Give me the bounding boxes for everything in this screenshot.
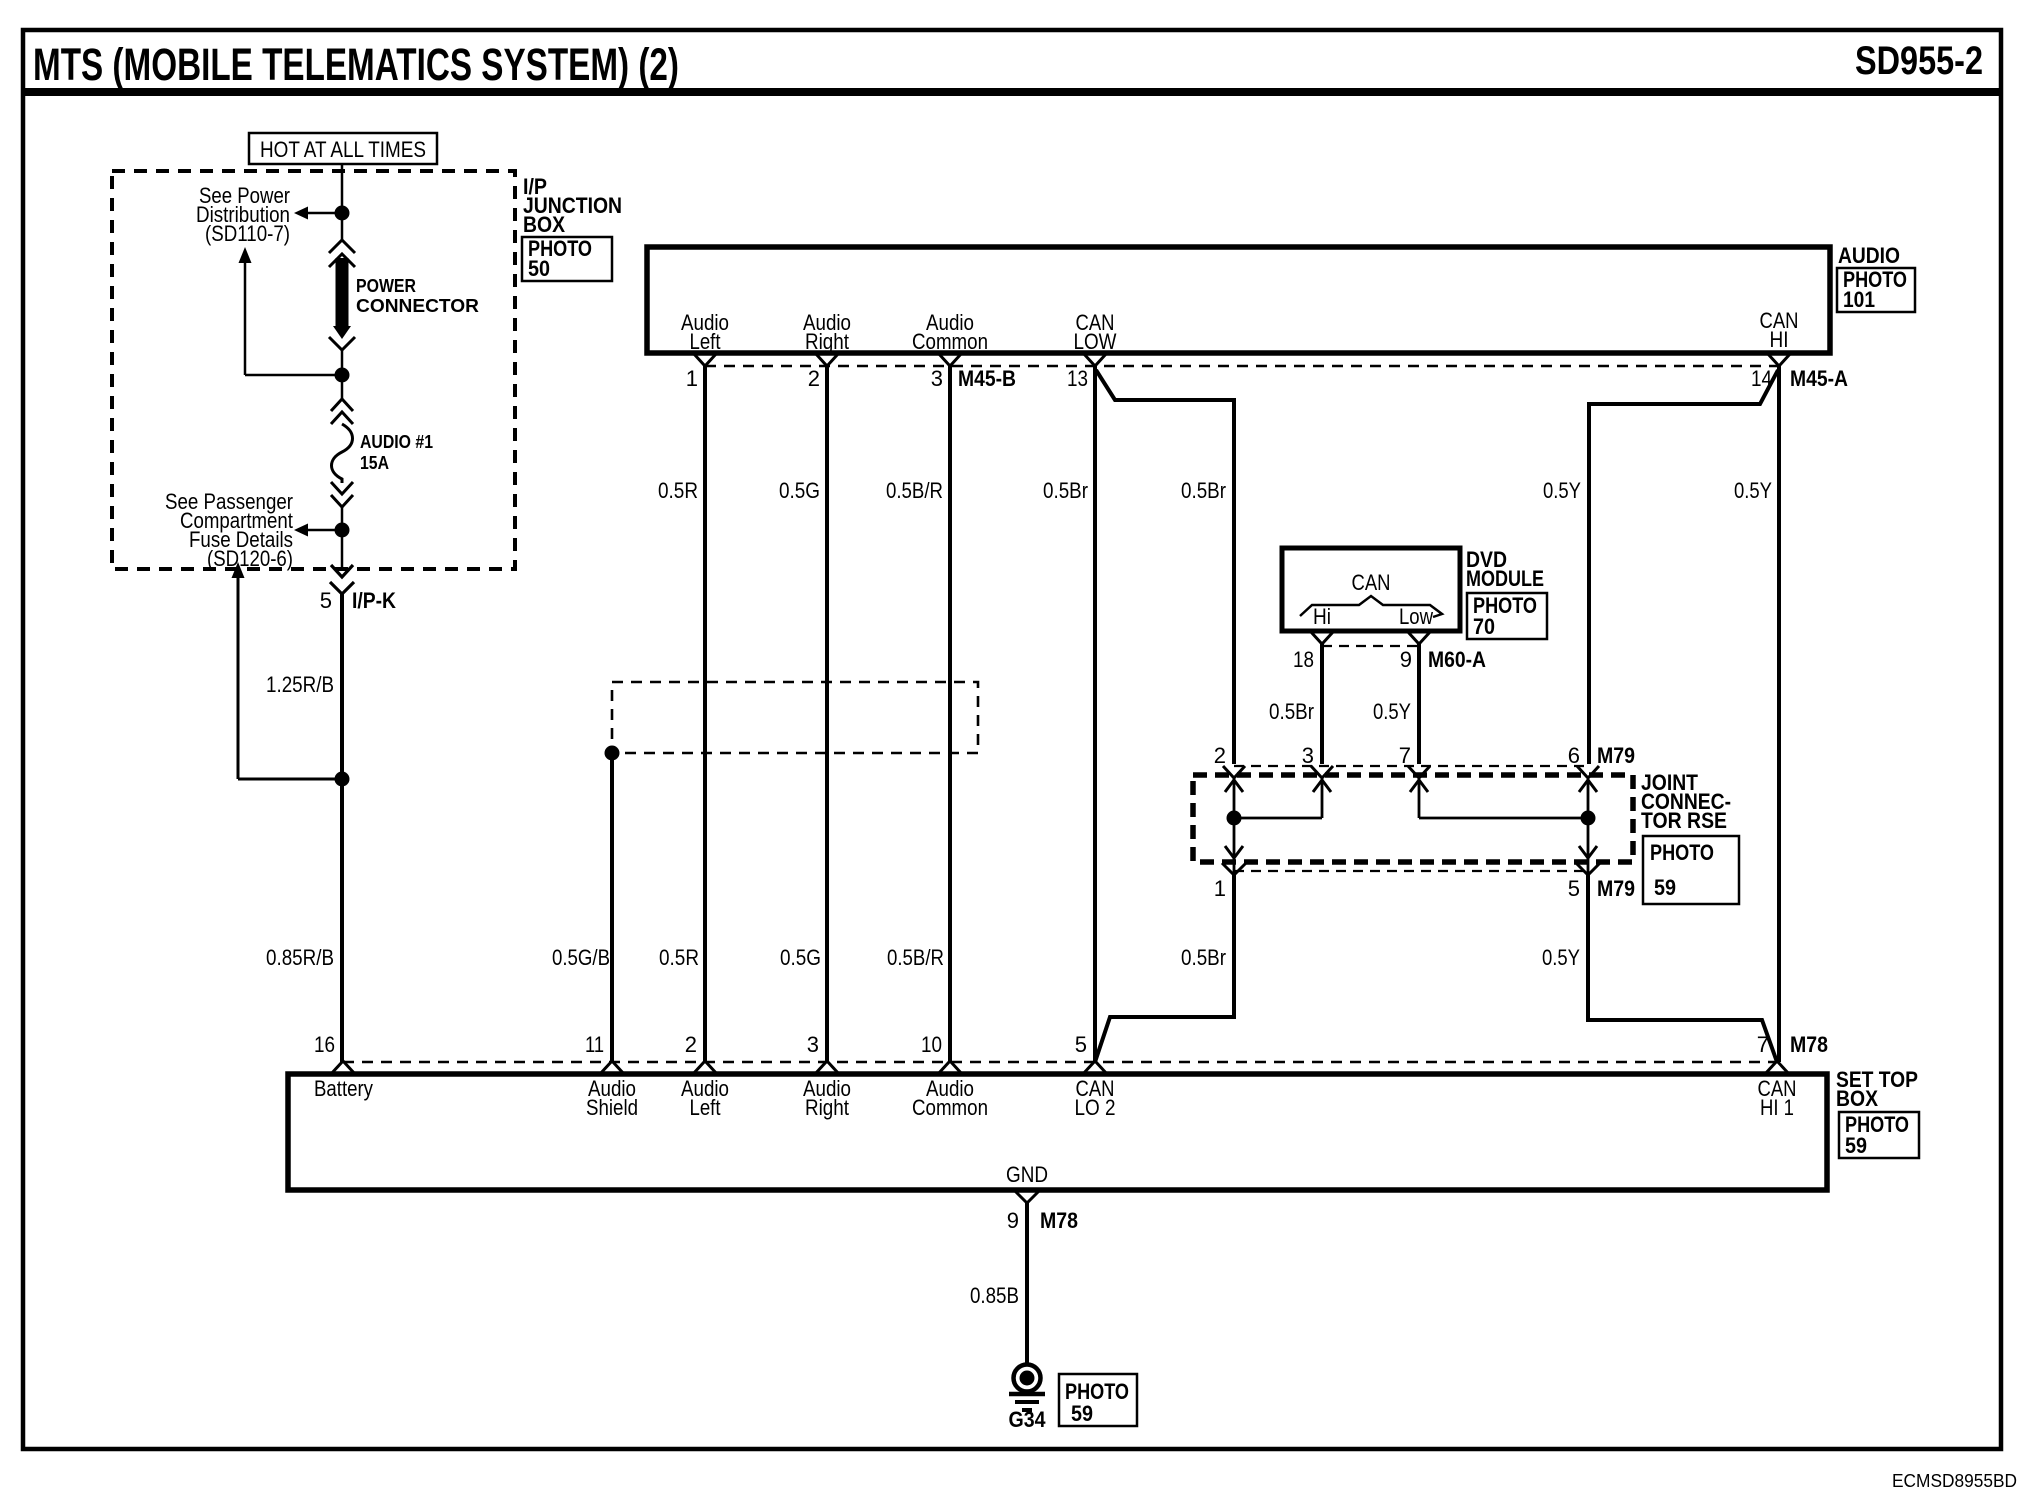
- svg-text:0.5G: 0.5G: [780, 945, 821, 970]
- connector row dashed line M60-A: [1322, 645, 1419, 647]
- svg-text:3: 3: [1302, 743, 1314, 768]
- svg-text:HOT AT ALL TIMES: HOT AT ALL TIMES: [260, 137, 426, 162]
- svg-text:1.25R/B: 1.25R/B: [266, 672, 334, 697]
- svg-text:TOR RSE: TOR RSE: [1641, 808, 1727, 833]
- svg-text:ECMSD8955BD: ECMSD8955BD: [1892, 1471, 2017, 1491]
- wire audio common 0.5B/R: [948, 366, 952, 1062]
- svg-text:CONNECTOR: CONNECTOR: [356, 296, 479, 316]
- label DVD MODULE: [1466, 547, 1544, 591]
- svg-text:7: 7: [1399, 743, 1411, 768]
- wire to see-power-distribution arrow: [308, 212, 342, 215]
- wire CAN LOW main 0.5Br: [1093, 366, 1097, 1062]
- svg-text:3: 3: [931, 366, 943, 391]
- label HOT AT ALL TIMES: [249, 133, 437, 164]
- pin label 5 I/P-K: [320, 588, 396, 613]
- svg-text:0.5R: 0.5R: [659, 945, 699, 970]
- svg-text:9: 9: [1007, 1208, 1019, 1233]
- svg-text:0.5Br: 0.5Br: [1181, 945, 1226, 970]
- connector row dashed line M45: [705, 365, 1779, 367]
- svg-text:2: 2: [685, 1032, 697, 1057]
- wire I/P-K down to battery pin 16: [340, 594, 344, 1062]
- svg-text:9: 9: [1400, 647, 1412, 672]
- photo ref PHOTO 50: [522, 236, 612, 281]
- svg-text:13: 13: [1067, 366, 1088, 391]
- svg-text:MTS (MOBILE TELEMATICS SYSTEM): MTS (MOBILE TELEMATICS SYSTEM) (2): [33, 39, 679, 90]
- svg-text:Left: Left: [690, 1095, 721, 1120]
- svg-text:0.5Y: 0.5Y: [1734, 478, 1772, 503]
- svg-text:18: 18: [1293, 647, 1314, 672]
- svg-text:0.5Br: 0.5Br: [1043, 478, 1088, 503]
- fuse AUDIO #1 15A: [331, 399, 353, 507]
- svg-text:2: 2: [808, 366, 820, 391]
- component SET TOP BOX: [288, 1074, 1827, 1190]
- svg-text:Hi: Hi: [1313, 604, 1331, 629]
- svg-text:0.5Br: 0.5Br: [1269, 699, 1314, 724]
- pin chevron GND 9: [1015, 1191, 1039, 1203]
- svg-text:BOX: BOX: [1836, 1086, 1878, 1111]
- wire from HOT AT ALL TIMES down: [341, 164, 344, 241]
- svg-text:HI: HI: [1770, 327, 1789, 352]
- wire inside joint pin7 to bus: [1418, 779, 1421, 818]
- pin chevron 2: [816, 354, 838, 366]
- node junction dot at 779: [335, 772, 350, 787]
- svg-text:0.5Y: 0.5Y: [1543, 478, 1581, 503]
- svg-text:Low: Low: [1399, 604, 1433, 629]
- svg-text:PHOTO: PHOTO: [1650, 840, 1714, 865]
- label JOINT CONNECTOR RSE: [1641, 770, 1731, 833]
- wire GND 0.85B: [1025, 1203, 1029, 1364]
- node junction dot lower: [335, 523, 350, 538]
- svg-text:101: 101: [1843, 287, 1875, 312]
- I/P junction box dashed outline: [112, 171, 515, 569]
- node joint left dot: [1227, 811, 1242, 826]
- svg-text:Battery: Battery: [314, 1076, 373, 1101]
- wire from fuse to I/P-K pin: [341, 507, 344, 570]
- svg-text:M45-B: M45-B: [958, 366, 1016, 391]
- svg-text:0.5G/B: 0.5G/B: [552, 945, 610, 970]
- connector row dashed line M79 top: [1234, 765, 1588, 767]
- ground symbol G34: [1009, 1365, 1045, 1411]
- node junction dot upper: [335, 206, 350, 221]
- pin name Audio Right: [803, 310, 851, 354]
- svg-text:0.85R/B: 0.85R/B: [266, 945, 334, 970]
- pin 6 symbol top: [1577, 766, 1599, 792]
- photo ref PHOTO 59 ground: [1059, 1374, 1137, 1426]
- label SET TOP BOX: [1836, 1067, 1918, 1111]
- pin chevron 3: [815, 1061, 839, 1074]
- wire branch to up arrow below box: [238, 778, 342, 781]
- svg-text:M60-A: M60-A: [1428, 647, 1486, 672]
- svg-text:MODULE: MODULE: [1466, 566, 1544, 591]
- svg-text:CAN: CAN: [1352, 570, 1391, 595]
- pin name CAN HI: [1760, 308, 1799, 352]
- node joint right dot: [1581, 811, 1596, 826]
- photo ref PHOTO 70: [1467, 593, 1547, 639]
- wire branch left and up arrow: [245, 374, 342, 377]
- audio shield dashed region: [612, 682, 978, 753]
- pin name Audio Common settop: [912, 1076, 988, 1120]
- svg-text:0.5Br: 0.5Br: [1181, 478, 1226, 503]
- wire CAN HI branch diagonal: [1589, 370, 1778, 764]
- svg-text:16: 16: [314, 1032, 335, 1057]
- svg-text:0.85B: 0.85B: [970, 1283, 1019, 1308]
- svg-text:Right: Right: [805, 1095, 849, 1120]
- svg-text:1: 1: [686, 366, 698, 391]
- pin chevron 10: [938, 1061, 962, 1074]
- svg-text:M78: M78: [1040, 1208, 1078, 1233]
- pin name CAN LOW: [1074, 310, 1117, 354]
- svg-text:0.5G: 0.5G: [779, 478, 820, 503]
- label AUDIO #1 15A: [360, 432, 433, 473]
- wire audio shield 0.5G/B: [610, 753, 614, 1062]
- wire CAN HI main 0.5Y: [1777, 366, 1781, 1062]
- svg-text:LO 2: LO 2: [1075, 1095, 1116, 1120]
- wire to see-passenger arrow: [308, 529, 342, 532]
- svg-text:AUDIO #1: AUDIO #1: [360, 432, 433, 452]
- svg-text:G34: G34: [1009, 1407, 1047, 1432]
- svg-text:2: 2: [1214, 743, 1226, 768]
- svg-text:Shield: Shield: [586, 1095, 638, 1120]
- wire audio right 0.5G: [825, 366, 829, 1062]
- pin chevron 3: [939, 354, 961, 366]
- svg-text:SD955-2: SD955-2: [1855, 39, 1983, 83]
- svg-text:6: 6: [1568, 743, 1580, 768]
- connector row dashed line M79 bottom: [1234, 870, 1588, 872]
- pin chevron 13: [1084, 354, 1106, 366]
- pin chevron 2: [693, 1061, 717, 1074]
- svg-text:0.5R: 0.5R: [658, 478, 698, 503]
- pin chevron 5: [1083, 1061, 1107, 1074]
- svg-text:11: 11: [585, 1032, 604, 1057]
- pin chevron 11: [600, 1061, 624, 1074]
- wire inside joint pin3 to bus: [1321, 779, 1324, 818]
- node junction dot mid: [335, 368, 350, 383]
- svg-text:M79: M79: [1597, 876, 1635, 901]
- svg-text:1: 1: [1214, 876, 1226, 901]
- svg-text:59: 59: [1654, 875, 1676, 900]
- label See Power Distribution (SD110-7): [196, 183, 290, 246]
- svg-text:GND: GND: [1006, 1162, 1048, 1187]
- svg-text:I/P-K: I/P-K: [352, 588, 396, 613]
- svg-text:59: 59: [1071, 1401, 1093, 1426]
- pin name CAN LO 2: [1075, 1076, 1116, 1120]
- wire below power connector: [341, 350, 344, 400]
- power connector symbol: [329, 240, 355, 350]
- wire joint dot to pin 1: [1233, 818, 1236, 874]
- svg-text:Common: Common: [912, 1095, 988, 1120]
- wire DVD Low to joint connector 0.5Y: [1417, 644, 1421, 764]
- svg-text:0.5B/R: 0.5B/R: [886, 478, 943, 503]
- photo ref PHOTO 59 joint: [1643, 836, 1739, 904]
- photo ref PHOTO 59 settop: [1839, 1112, 1919, 1158]
- wire joint dot to pin 5: [1587, 818, 1590, 874]
- CAN brace symbol: [1300, 596, 1442, 617]
- svg-text:0.5B/R: 0.5B/R: [887, 945, 944, 970]
- svg-text:3: 3: [807, 1032, 819, 1057]
- svg-text:5: 5: [1568, 876, 1580, 901]
- wire inside joint bus left: [1234, 817, 1322, 820]
- component AUDIO unit box: [647, 247, 1830, 353]
- wire inside joint bus right: [1419, 817, 1588, 820]
- pin chevron 7: [1765, 1061, 1789, 1074]
- pin name Audio Common: [912, 310, 988, 354]
- svg-text:7: 7: [1757, 1032, 1769, 1057]
- svg-text:10: 10: [921, 1032, 942, 1057]
- svg-text:BOX: BOX: [523, 212, 565, 237]
- wire CAN LOW branch diagonal: [1096, 370, 1234, 764]
- pin 2 symbol top: [1223, 766, 1245, 792]
- pin chevron 9: [1408, 632, 1430, 644]
- wire inside joint pin6 to bus: [1587, 779, 1590, 818]
- component DVD MODULE box: [1282, 548, 1460, 631]
- pin chevron 16: [331, 1061, 355, 1074]
- svg-text:M45-A: M45-A: [1790, 366, 1848, 391]
- pin name Audio Left: [681, 310, 729, 354]
- svg-text:HI 1: HI 1: [1760, 1095, 1794, 1120]
- pin chevron 18: [1311, 632, 1333, 644]
- svg-text:59: 59: [1845, 1133, 1867, 1158]
- pin chevron 1: [694, 354, 716, 366]
- label POWER CONNECTOR: [356, 276, 479, 316]
- pin name Audio Right settop: [803, 1076, 851, 1120]
- svg-text:15A: 15A: [360, 453, 389, 473]
- svg-text:(SD110-7): (SD110-7): [205, 221, 290, 246]
- pin 7 symbol top: [1408, 766, 1430, 792]
- pin name Audio Shield: [586, 1076, 638, 1120]
- title separator bar: [21, 88, 2003, 96]
- label See Passenger Compartment Fuse Details (SD120-6): [165, 489, 293, 571]
- svg-text:Right: Right: [805, 329, 849, 354]
- pin name Audio Left settop: [681, 1076, 729, 1120]
- svg-text:(SD120-6): (SD120-6): [207, 546, 293, 571]
- photo ref PHOTO 101: [1837, 267, 1915, 312]
- svg-text:Left: Left: [690, 329, 721, 354]
- svg-text:0.5Y: 0.5Y: [1542, 945, 1580, 970]
- svg-text:50: 50: [528, 256, 550, 281]
- pin 5 I/P-K connector symbol: [330, 565, 354, 594]
- pin 5 symbol bottom: [1576, 846, 1600, 875]
- label I/P JUNCTION BOX: [523, 174, 622, 237]
- node shield junction dot: [605, 746, 620, 761]
- pin chevron 14: [1768, 354, 1790, 366]
- svg-text:0.5Y: 0.5Y: [1373, 699, 1411, 724]
- svg-text:70: 70: [1473, 614, 1495, 639]
- svg-text:5: 5: [320, 588, 332, 613]
- component JOINT CONNECTOR RSE dashed box: [1193, 775, 1633, 862]
- svg-text:AUDIO: AUDIO: [1838, 243, 1900, 268]
- pin 1 symbol bottom: [1222, 846, 1246, 875]
- svg-text:LOW: LOW: [1074, 329, 1117, 354]
- connector row dashed line M78: [343, 1061, 1777, 1063]
- pin 3 symbol top: [1311, 766, 1333, 792]
- svg-text:M79: M79: [1597, 743, 1635, 768]
- svg-text:5: 5: [1075, 1032, 1087, 1057]
- svg-text:Common: Common: [912, 329, 988, 354]
- wire inside joint pin2 to bus: [1233, 779, 1236, 818]
- svg-text:POWER: POWER: [356, 276, 416, 296]
- wire joint pin5 down to set top pin 7: [1588, 875, 1777, 1062]
- pin name CAN HI 1: [1758, 1076, 1797, 1120]
- svg-text:M78: M78: [1790, 1032, 1828, 1057]
- wire audio left 0.5R: [703, 366, 707, 1062]
- wire DVD Hi to joint connector 0.5Br: [1320, 644, 1324, 764]
- wire joint pin1 down to set top pin 5: [1095, 875, 1234, 1062]
